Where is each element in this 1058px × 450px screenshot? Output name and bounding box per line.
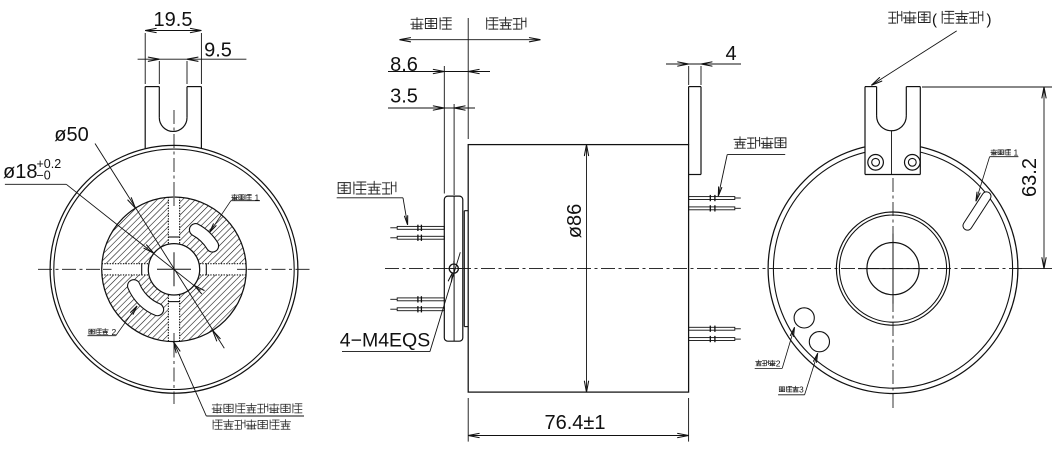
note text: four screws fix aluminum ring bbox=[212, 403, 302, 413]
label outlet hole 2 (left view) bbox=[89, 329, 108, 335]
svg-text:4−M4EQS: 4−M4EQS bbox=[340, 329, 431, 351]
svg-text:19.5: 19.5 bbox=[154, 9, 193, 31]
svg-text:(: ( bbox=[932, 12, 937, 29]
svg-text:76.4±1: 76.4±1 bbox=[544, 412, 605, 434]
stator bore double circle bbox=[836, 212, 949, 325]
wire outlet hole 3 (small circle) bbox=[809, 332, 829, 352]
wire outlet slot 1 (upper right, in ring) bbox=[189, 224, 218, 252]
svg-text:−0: −0 bbox=[37, 169, 51, 183]
svg-text:3: 3 bbox=[799, 384, 804, 394]
svg-text:2: 2 bbox=[776, 358, 781, 368]
screw channels (white cuts) bbox=[168, 197, 179, 342]
svg-text:ø50: ø50 bbox=[54, 124, 88, 146]
svg-text:1: 1 bbox=[1014, 147, 1019, 157]
stator boss step bbox=[464, 210, 468, 212]
middle view: stator body (dia86 x 76.4) bbox=[468, 145, 688, 393]
svg-text:63.2: 63.2 bbox=[1019, 158, 1041, 197]
anti-rotation tab (front view) bbox=[144, 87, 146, 149]
svg-text:ø18: ø18 bbox=[3, 161, 37, 183]
vertical centerline (segmented) bbox=[173, 110, 175, 196]
center hole (dia 18) bbox=[867, 243, 919, 295]
middle+right horizontal centerline bbox=[385, 268, 1022, 270]
label outlet hole 2 (right view) bbox=[756, 360, 776, 366]
wire outlet hole 2 (small circle) bbox=[794, 308, 814, 328]
screw seat ticks in channels bbox=[168, 236, 180, 238]
horizontal centerline (segmented) bbox=[38, 268, 101, 270]
tab screws bbox=[868, 155, 884, 171]
dim 63.2 bbox=[922, 86, 1052, 88]
left view: hatched aluminum ring (section) bbox=[102, 197, 247, 342]
anti-rotation tab (rear view) white over circles bbox=[865, 87, 920, 175]
tab U-slot bbox=[158, 87, 160, 118]
label anti-rotation plate (adjustable) bbox=[889, 11, 930, 23]
svg-text:8.6: 8.6 bbox=[390, 54, 418, 76]
right view: outer double circle bbox=[768, 144, 1018, 394]
svg-text:ø86: ø86 bbox=[564, 204, 586, 238]
note leader A to bottom screw channel bbox=[174, 342, 207, 416]
rotor lead wires (left, 4) bbox=[397, 226, 444, 229]
label outlet hole 3 (right view) bbox=[779, 386, 798, 392]
M4 screw on flange bbox=[449, 264, 458, 273]
label rotor lead wire bbox=[338, 181, 396, 194]
right view vertical centerline bbox=[892, 178, 894, 410]
center crosshair bbox=[157, 268, 191, 270]
label outlet hole 1 (right view) bbox=[991, 149, 1011, 155]
dotted channel edge lines bbox=[167, 197, 169, 244]
label stator lead wire bbox=[734, 137, 786, 149]
outer flange double circle (dia 86) bbox=[50, 145, 298, 393]
anti-rotation tab (edge view, 4mm) bbox=[700, 87, 702, 175]
svg-text:9.5: 9.5 bbox=[204, 40, 232, 62]
right view center crosshair bbox=[858, 268, 928, 270]
rotor flange disc (dia50, side view) bbox=[444, 196, 463, 341]
wire outlet slot 1 (right view, arc slot) bbox=[961, 190, 993, 232]
svg-text:4: 4 bbox=[725, 43, 736, 65]
svg-text:): ) bbox=[987, 12, 992, 29]
ring outer circle (dia 50) bbox=[102, 197, 247, 342]
rotor-side / stator-side labels bbox=[411, 18, 452, 30]
wire outlet slot 2 (lower left, in ring) bbox=[128, 280, 164, 316]
tab U-slot (rear) bbox=[876, 87, 878, 116]
stator lead wires (right, 4) bbox=[689, 197, 735, 200]
svg-text:3.5: 3.5 bbox=[390, 86, 418, 108]
center hole circle (dia 18) bbox=[148, 244, 199, 295]
label outlet hole 1 (left view) bbox=[232, 194, 252, 200]
